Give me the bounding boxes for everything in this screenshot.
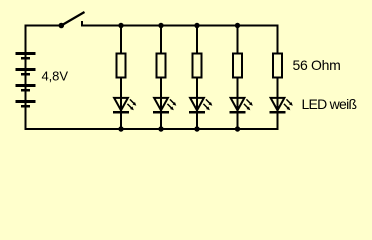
- resistor R2 56 Ohm: [157, 54, 166, 78]
- LED D5 cathode bar: [270, 111, 286, 114]
- wire branch 3 vertical: [196, 25, 198, 131]
- node dot top branch 4: [235, 23, 240, 28]
- node dot bottom branch 2: [158, 126, 163, 131]
- branch 4: [230, 23, 253, 132]
- LED D4 light arrow upper: [246, 99, 250, 103]
- node dot bottom branch 1: [118, 126, 123, 131]
- branch 2: [153, 23, 176, 132]
- battery cell 3 short plate: [21, 89, 30, 92]
- LED D5 triangle: [271, 98, 285, 110]
- svg-text:56 Ohm: 56 Ohm: [293, 57, 341, 73]
- node dot top branch 1: [118, 23, 123, 28]
- LED D1 cathode bar: [113, 111, 129, 114]
- LED D1 triangle: [114, 98, 128, 110]
- LED D3 light arrow upper: [206, 99, 210, 103]
- wire: top rail left segment (battery to switch pole): [25, 25, 61, 27]
- LED D2 cathode bar: [153, 111, 169, 114]
- resistor R4 56 Ohm: [233, 54, 242, 78]
- LED D2 light arrow lower: [167, 104, 171, 108]
- switch S1 lever: [61, 12, 84, 26]
- wire branch 5 vertical: [277, 25, 279, 131]
- LED D4 triangle: [231, 98, 245, 110]
- wire branch 1 vertical: [120, 25, 122, 131]
- LED D2 light arrow upper: [170, 99, 174, 103]
- resistor R3 56 Ohm: [193, 54, 202, 78]
- branch 3: [189, 23, 212, 132]
- LED D3 light arrow lower: [203, 104, 207, 108]
- LED D2 triangle: [154, 98, 168, 110]
- node dot top branch 3: [194, 23, 199, 28]
- LED D4 cathode bar: [230, 111, 246, 114]
- wire branch 4 vertical: [237, 25, 239, 131]
- switch S1 fixed contact stub: [81, 21, 83, 27]
- node dot bottom branch 3: [194, 126, 199, 131]
- battery cell 4 long plate: [16, 100, 36, 103]
- branch 1: [113, 23, 136, 132]
- battery cell 2 long plate: [16, 68, 36, 71]
- node dot bottom branch 4: [235, 126, 240, 131]
- LED D3 triangle: [190, 98, 204, 110]
- switch S1 pole dot: [59, 23, 65, 29]
- wire: bottom rail: [25, 128, 279, 130]
- battery cell 4 short plate: [21, 105, 30, 108]
- battery cell 1 short plate: [21, 57, 30, 60]
- battery B1 4,8V : cell 1 long plate: [16, 52, 36, 55]
- LED D3 cathode bar: [189, 111, 205, 114]
- LED D4 light arrow lower: [244, 104, 248, 108]
- wire: battery vertical conductor: [25, 25, 27, 131]
- resistor R1 56 Ohm: [117, 54, 126, 78]
- svg-text:LED weiß: LED weiß: [302, 96, 358, 112]
- LED D1 light arrow upper: [130, 99, 134, 103]
- battery cell 3 long plate: [16, 84, 36, 87]
- resistor R5 56 Ohm: [273, 54, 282, 78]
- LED D1 light arrow lower: [127, 104, 131, 108]
- LED D5 light arrow upper: [286, 99, 290, 103]
- battery cell 2 short plate: [21, 73, 30, 76]
- branch 5: [270, 25, 293, 131]
- wire branch 2 vertical: [160, 25, 162, 131]
- LED D5 light arrow lower: [284, 104, 288, 108]
- node dot top branch 2: [158, 23, 163, 28]
- wire: top rail right segment (switch contact to branch 5): [81, 25, 279, 27]
- svg-text:4,8V: 4,8V: [42, 69, 69, 84]
